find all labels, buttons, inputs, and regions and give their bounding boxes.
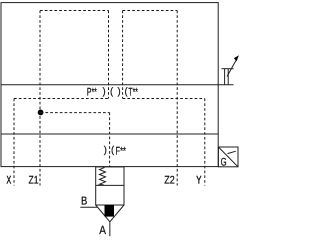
svg-text:F**: F** bbox=[116, 146, 127, 158]
svg-text:A: A bbox=[99, 223, 106, 237]
svg-text:B: B bbox=[81, 195, 88, 207]
svg-text:): ) bbox=[103, 86, 106, 97]
svg-text:Z2: Z2 bbox=[164, 175, 175, 187]
svg-text:Y: Y bbox=[196, 175, 202, 187]
svg-text:): ) bbox=[118, 86, 121, 97]
svg-text:X: X bbox=[7, 174, 12, 186]
svg-text:G: G bbox=[221, 157, 227, 169]
svg-text:T**: T** bbox=[128, 87, 138, 99]
svg-text:Z1: Z1 bbox=[29, 175, 39, 187]
svg-text:): ) bbox=[104, 145, 107, 156]
svg-text:P**: P** bbox=[87, 87, 97, 99]
